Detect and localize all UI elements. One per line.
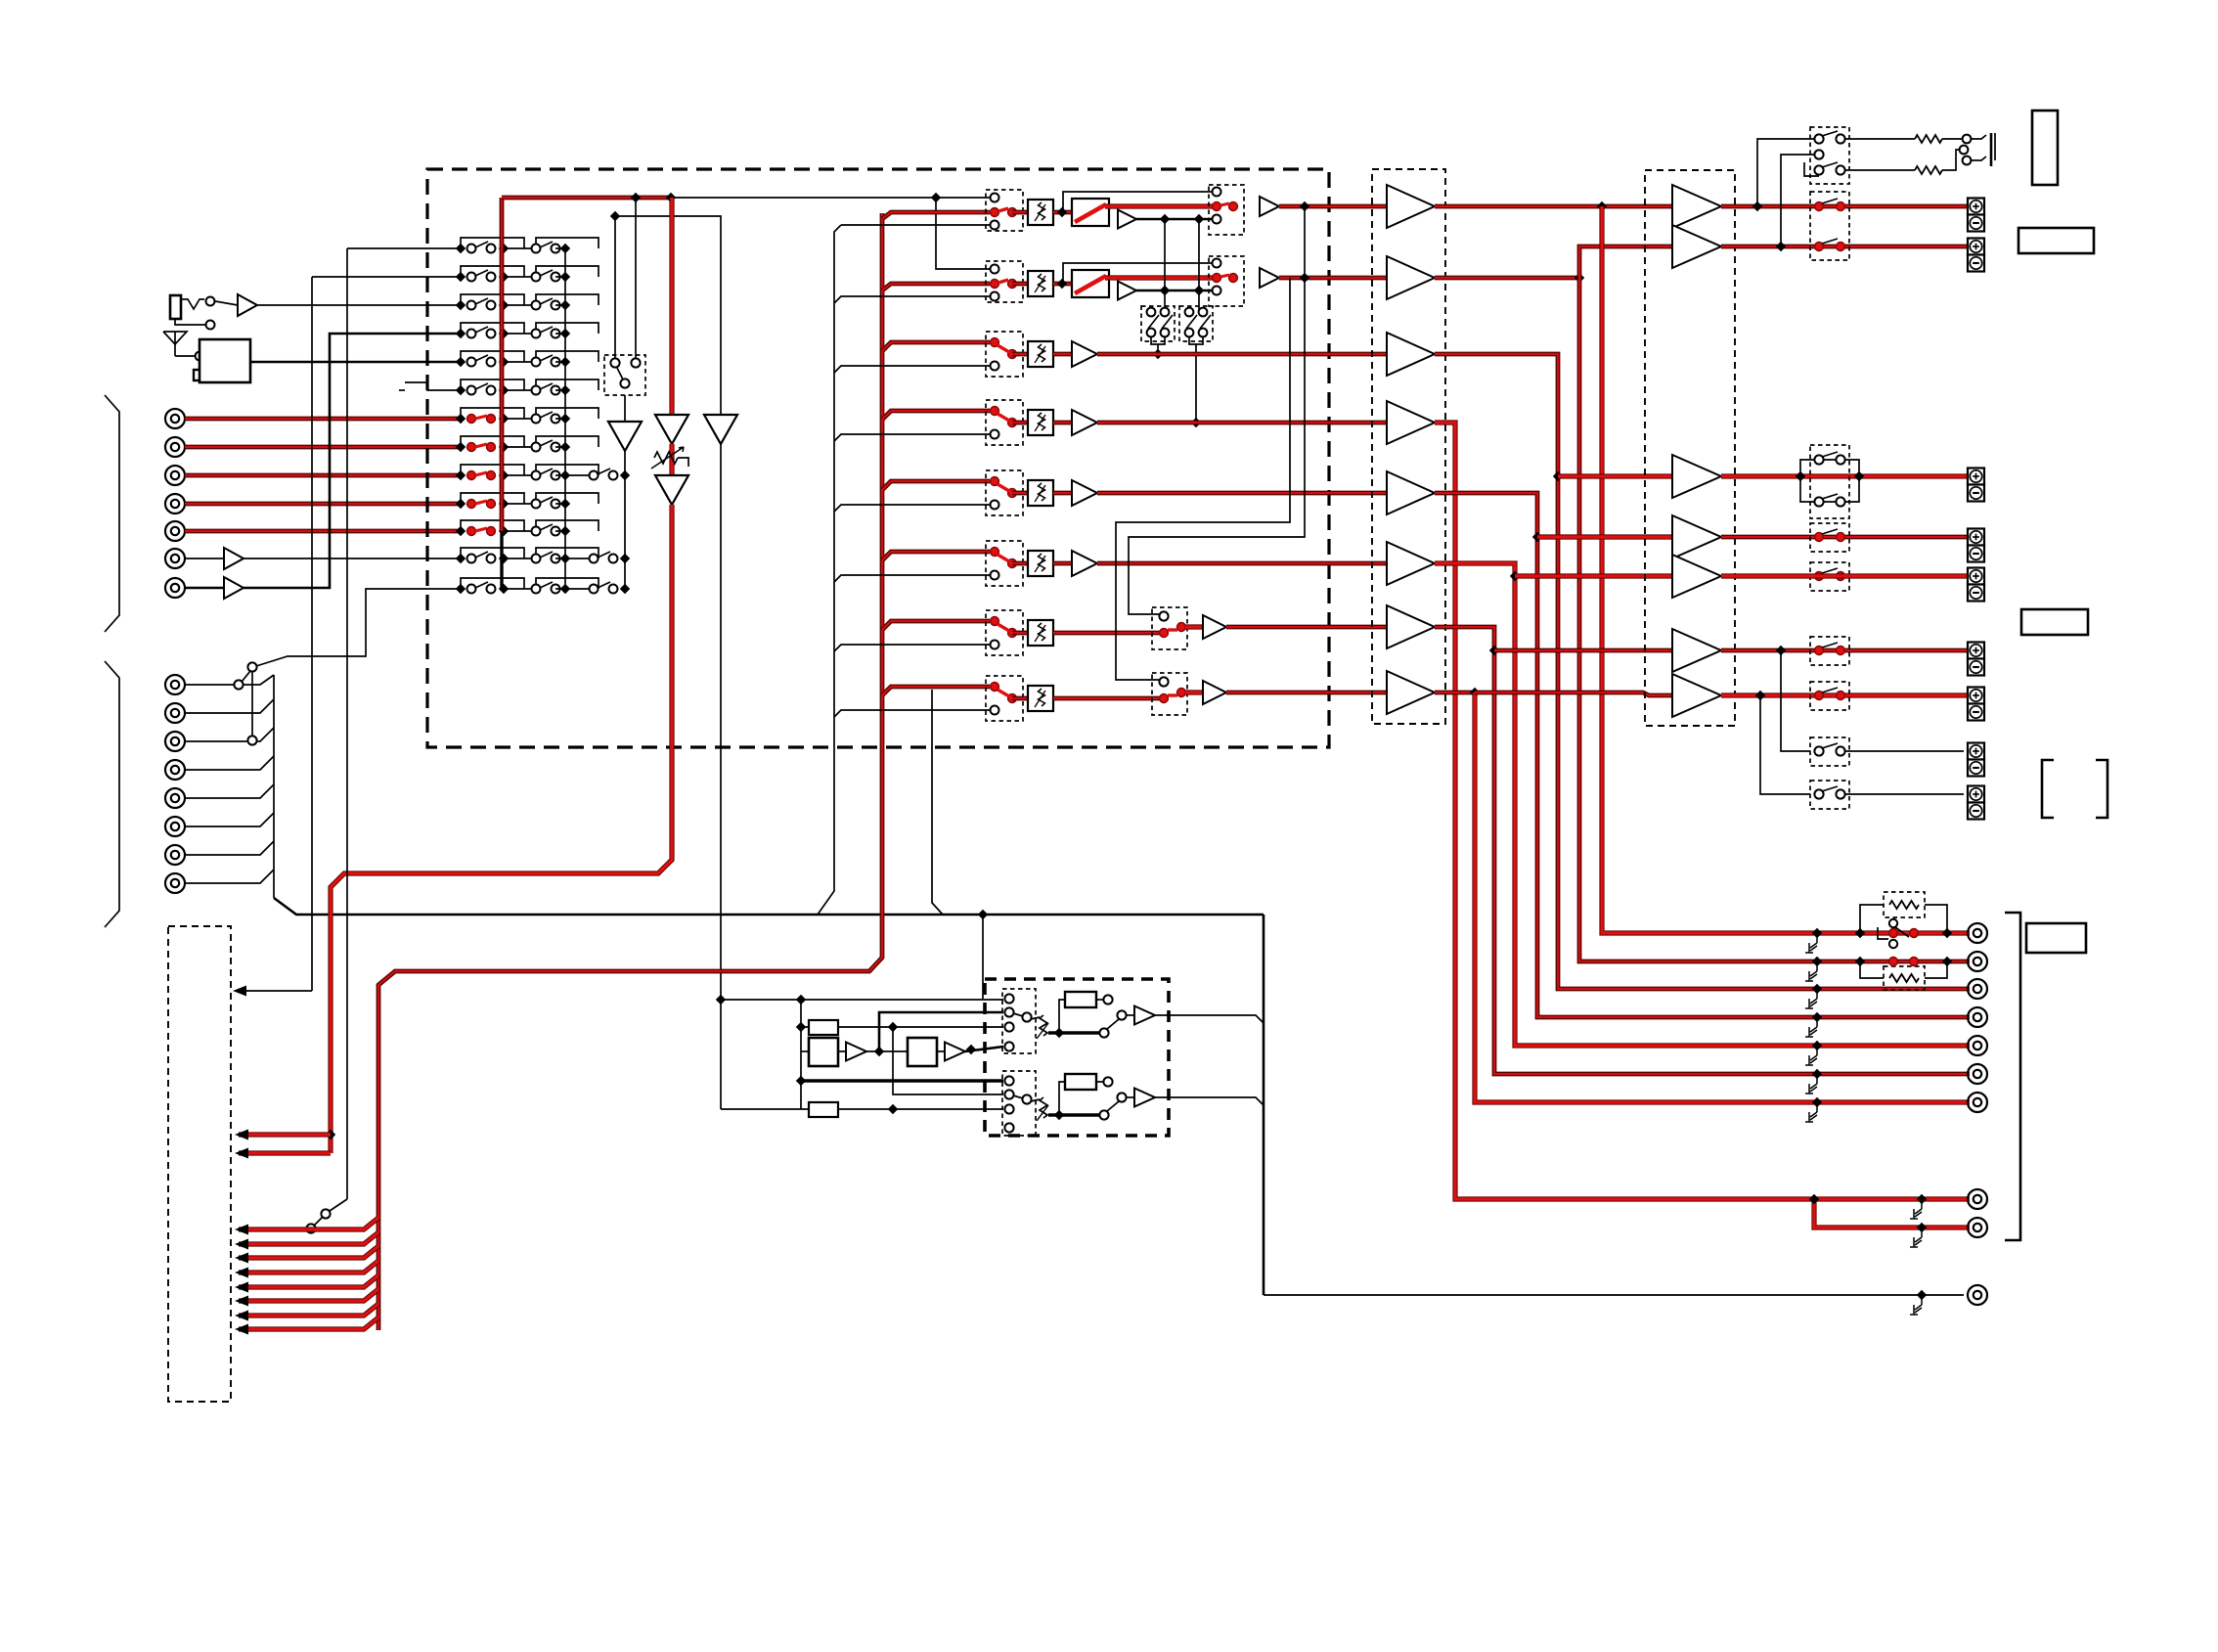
- matrix row 11 switch col1: [456, 526, 466, 536]
- matrix bus lower (black): [500, 531, 503, 589]
- rec bundle line 4: [239, 1261, 378, 1272]
- AV lower output wire: [1155, 1097, 1264, 1105]
- matrix row 5 switch col1: [456, 357, 466, 367]
- wire monitor to tape box arrows: [326, 1130, 335, 1139]
- wire S4 out: [1721, 535, 1970, 540]
- volume row 3 resistor VR3: [1012, 352, 1028, 357]
- wire U1 out to matrix row3: [257, 304, 461, 306]
- subwoofer line resistor relay (bottom): [1884, 966, 1925, 990]
- volume row 4 resistor VR4: [1012, 421, 1028, 425]
- buffer column amp 1: [1387, 185, 1435, 228]
- dashed box: input selector block: [427, 169, 1329, 747]
- vertical bus of group2 jacks: [273, 675, 275, 898]
- wire jack group2 #8 to bus: [185, 870, 274, 883]
- headphone/line jack J1 top-left: [170, 295, 181, 319]
- matrix row 4 switch col1: [456, 329, 466, 338]
- pre-out jack 3: [1968, 979, 1987, 999]
- AV switch box upper: [1002, 989, 1036, 1053]
- wire b8 to PA S7: [1475, 692, 1672, 695]
- wire selector to matrix row13: [256, 589, 461, 666]
- matrix row 10 switch col1: [456, 499, 466, 509]
- subwoofer line resistor relay (top): [1884, 892, 1925, 917]
- AV IC U-a: [809, 1038, 838, 1066]
- AV lower switch + buffer: [1099, 1110, 1108, 1119]
- buffer row 7: [1185, 624, 1203, 629]
- branch b6 to PA S5: [1515, 573, 1672, 578]
- buffer column amp 8: [1387, 671, 1435, 714]
- wire row 5 out to buffer column: [1097, 491, 1387, 496]
- buffer column amp 6: [1387, 542, 1435, 585]
- volume row 5 resistor VR5: [1012, 491, 1028, 496]
- pre-out jack 6: [1968, 1064, 1987, 1084]
- label rect pre out: [2026, 923, 2086, 953]
- AV switch box lower: [1002, 1071, 1036, 1136]
- wire red input 4 to matrix: [185, 502, 461, 507]
- terminal pairs rear B: [1968, 743, 1984, 760]
- tone bypass wire row 2: [1063, 263, 1217, 284]
- wire red input 2 to matrix: [185, 445, 461, 450]
- center bypass switches: [1800, 460, 1859, 476]
- terminal pairs rear A: [1968, 643, 1984, 659]
- wire jack7 to buffer B2: [185, 587, 224, 590]
- matrix row 1 switch col2: [504, 247, 536, 249]
- wire b8 out: [1435, 691, 1475, 695]
- terminal pairs surround: [1968, 529, 1984, 546]
- wire row 2 red out: [1105, 275, 1217, 280]
- wire SW2 right contact up to top line: [635, 198, 637, 358]
- volume row 1 resistor VR1: [1012, 210, 1028, 215]
- rec bundle line 5: [239, 1275, 378, 1287]
- wire red input 3 to matrix: [185, 473, 461, 478]
- AV mid rail: [893, 1027, 1003, 1094]
- buffer row 1a: [1118, 210, 1136, 229]
- down-triangle T3: [655, 475, 688, 505]
- wire jack group2 #2 to bus: [185, 699, 274, 713]
- wire jack group2 #6 to bus: [185, 813, 274, 826]
- RCA jack group2 #6: [165, 817, 185, 836]
- power amp 1: [1672, 185, 1721, 228]
- wire S5 out: [1721, 573, 1970, 578]
- wire S6 out: [1721, 648, 1970, 653]
- source bus branch to volume row 4: [882, 411, 990, 420]
- buffer row 3: [1053, 352, 1072, 357]
- wire matrix row2 from tape box: [312, 276, 461, 278]
- matrix record bus col2: [564, 248, 566, 589]
- matrix row 11 switch col2: [504, 530, 536, 532]
- wire red input 1 to matrix: [185, 417, 461, 422]
- relay2 row 1: [1209, 185, 1244, 235]
- buffer row 4: [1053, 421, 1072, 425]
- AV lower out: [1048, 1113, 1099, 1116]
- matrix row 9 switch col1: [456, 470, 466, 480]
- matrix row 6 switch col1: [456, 385, 466, 395]
- wire monitor B down to row4: [1195, 344, 1197, 423]
- buffer column amp 3: [1387, 333, 1435, 376]
- matrix col3 partial rows 9,12,13: [565, 474, 594, 476]
- AV bottom line with resistor R-b: [721, 1108, 809, 1110]
- wire row 1 buffer out: [1136, 218, 1217, 221]
- RCA input jack group1 #4: [165, 494, 185, 513]
- pre-out jack 4: [1968, 1007, 1987, 1027]
- volume row 1 junction: [1053, 210, 1072, 215]
- wire group2 bus to control line: [274, 898, 1264, 915]
- wire jack group2 #3 to bus: [185, 728, 274, 741]
- bracket rear B left: [2042, 760, 2054, 818]
- AM loop terminal (small square): [199, 360, 200, 370]
- matrix row 12 switch col1: [456, 554, 466, 563]
- vertical drop row1: [1602, 206, 1970, 933]
- ground bus vertical x853: [818, 225, 841, 915]
- wire row 4 out to buffer column: [1097, 421, 1387, 425]
- matrix row 13 switch col2: [504, 588, 536, 590]
- headphone resistors: [1845, 138, 1915, 140]
- matrix row 6 switch col2: [504, 389, 536, 391]
- pre-out jack 5: [1968, 1036, 1987, 1055]
- wire row 8 to tape switch: [1053, 696, 1164, 701]
- volume row 8 relay RY8: [986, 676, 1023, 721]
- volume row 8 resistor VR8: [1012, 696, 1028, 701]
- wire B2 out up to matrix row4: [244, 334, 461, 588]
- source bus branch to volume row 6: [882, 552, 990, 560]
- wire control bus vertical: [1263, 915, 1265, 1295]
- wire S1 out: [1721, 204, 1970, 209]
- wire S2 out: [1721, 245, 1970, 249]
- terminal pair center: [1968, 469, 1984, 485]
- headphone tap wires: [1757, 139, 1814, 206]
- source bus branch to volume row 5: [882, 481, 990, 490]
- wire tape return line to row8 switch box: [1116, 278, 1290, 680]
- wire row 7 to tape switch: [1053, 631, 1164, 636]
- buffer row 5: [1053, 491, 1072, 496]
- down-triangle T4: [704, 415, 737, 444]
- RCA jack group2 #4: [165, 760, 185, 780]
- volume row 7 resistor VR7: [1012, 631, 1028, 636]
- wire b4 down (subwoofer): [1435, 423, 1814, 1199]
- bracket input group 1: [105, 395, 119, 632]
- volume row 3 relay RY3: [986, 332, 1023, 377]
- source bus branch to volume row 7: [882, 621, 990, 630]
- volume row 4 relay RY4: [986, 400, 1023, 445]
- AV rail up: [879, 1012, 1003, 1051]
- tone bypass wire row 1: [1063, 192, 1217, 212]
- pre-out jack 7: [1968, 1093, 1987, 1112]
- wire b7 down: [1435, 627, 1970, 1074]
- wire b2 out jog up (R main): [1435, 276, 1579, 281]
- label rect phones: [2032, 111, 2058, 185]
- dashed box power amp block: [1645, 170, 1735, 726]
- matrix row 9 switch col2: [504, 474, 536, 476]
- matrix row 12 switch col2: [504, 558, 536, 559]
- tone box row 2: [1072, 270, 1109, 297]
- FM antenna symbol: [163, 332, 187, 344]
- wire row2 to tape box (arrow): [311, 277, 313, 991]
- dashed box buffer column: [1372, 169, 1445, 724]
- AV lower fixed resistor: [1059, 1082, 1065, 1115]
- source bus branch to volume row 3: [882, 342, 990, 351]
- AV upper switch + buffer: [1099, 1028, 1108, 1037]
- wire B1 out to matrix row12: [244, 558, 461, 559]
- buffer column amp 5: [1387, 471, 1435, 514]
- vertical drop row2: [1579, 278, 1970, 961]
- matrix row 2 switch col1: [456, 272, 466, 282]
- wire jack group2 #7 to bus: [185, 841, 274, 855]
- wire monitor A down to row3: [1157, 344, 1159, 354]
- transistor mute Q5: [1816, 1046, 1818, 1055]
- matrix maroon bus vertical: [500, 198, 505, 531]
- AV upper out: [1048, 1031, 1099, 1034]
- volume row 5 relay RY5: [986, 470, 1023, 515]
- matrix row 1 switch col1: [456, 244, 466, 253]
- wire b6 down: [1435, 563, 1970, 1046]
- transistor mute Q4: [1816, 1017, 1818, 1027]
- power amp 4: [1672, 515, 1721, 558]
- volume row 1 relay RY1: [986, 190, 1023, 231]
- RCA jack group2 #7: [165, 845, 185, 865]
- maroon source bus vertical x905: [378, 213, 882, 1330]
- buffer U1 (line in): [215, 301, 238, 305]
- wire row 6 out to buffer column: [1097, 561, 1387, 566]
- buffer B1: [224, 548, 244, 569]
- wire row 2 out: [1279, 276, 1387, 281]
- RCA jack group2 #2: [165, 703, 185, 723]
- terminal pair front R: [1968, 239, 1984, 255]
- source bus branch to volume row2: [882, 284, 990, 290]
- branch b3 to PA center: [1558, 473, 1672, 478]
- wire tuner out to matrix row5: [250, 361, 461, 364]
- RCA input jack group1 #5: [165, 521, 185, 541]
- AV input rail: [721, 999, 1003, 1001]
- wire row 2 buffer out: [1136, 290, 1217, 292]
- buffer row 2b: [1260, 268, 1279, 288]
- power amp 7: [1672, 674, 1721, 717]
- label rect surround: [2021, 609, 2088, 635]
- pre-out jack 2: [1968, 952, 1987, 971]
- branch b7 to PA S6: [1494, 648, 1672, 653]
- transistor mute Q3: [1816, 989, 1818, 999]
- pre-out jack 1: [1968, 923, 1987, 943]
- wire SW2 left contact up: [614, 216, 616, 358]
- matrix row 7 switch col1: [456, 414, 466, 424]
- bracket input group 2: [105, 661, 119, 927]
- AV upper output wire: [1155, 1015, 1264, 1023]
- AV upper fixed resistor: [1059, 1000, 1065, 1033]
- tone box row 1: [1072, 199, 1109, 226]
- wire jack group2 #1 to bus: [185, 675, 274, 685]
- dashed switch box SW2 (rec select): [604, 355, 645, 395]
- RCA input jack group1 #3: [165, 466, 185, 485]
- buffer row 6: [1053, 561, 1072, 566]
- buffer column amp 4: [1387, 401, 1435, 444]
- AV buffer a: [838, 1050, 846, 1052]
- rec bundle line 2: [239, 1232, 378, 1244]
- matrix row 3 switch col2: [504, 304, 536, 306]
- label rect speakers front: [2018, 228, 2094, 253]
- rec bundle line 7: [239, 1304, 378, 1316]
- tape switch box row 7: [1152, 607, 1187, 649]
- wire row 1 red out: [1105, 203, 1217, 208]
- relay rear A: [1810, 637, 1849, 665]
- tape switch box row 8: [1152, 673, 1187, 715]
- relay surround A: [1810, 523, 1849, 552]
- buffer column amp 7: [1387, 605, 1435, 648]
- headphone relay box: [1810, 127, 1849, 184]
- RCA input jack group1 #6: [165, 549, 185, 568]
- dashed box AV compu link: [985, 979, 1169, 1136]
- volume row 2 relay RY2: [986, 261, 1023, 302]
- AV resistor R-a: [801, 1026, 809, 1028]
- RCA input jack group1 #1: [165, 409, 185, 428]
- wire b8 drop: [1475, 692, 1970, 1102]
- transistor mute Q1: [1816, 933, 1818, 943]
- branch to AV circuit: [982, 915, 984, 999]
- matrix row 4 switch col2: [504, 333, 536, 335]
- buffer row 8: [1185, 690, 1203, 694]
- black feed lines to volume row bottom contacts: [841, 224, 995, 226]
- wire T4 down to AV circuit: [720, 444, 722, 1000]
- AV pot lower: [1040, 1097, 1047, 1118]
- source bus top corner to volume row1: [882, 212, 990, 219]
- headphone jack J-PH: [1963, 135, 1972, 144]
- matrix row 7 switch col2: [504, 418, 536, 420]
- ground symbol row6: [405, 382, 461, 390]
- wire S7 out: [1721, 692, 1970, 697]
- wire matrix row1 from record bus: [347, 247, 461, 249]
- buffer column amp 2: [1387, 256, 1435, 299]
- AV IC U-b: [908, 1038, 937, 1066]
- buffer row 1b: [1260, 197, 1279, 216]
- monitor switch box A: [1141, 306, 1175, 341]
- matrix col3 bus: [624, 475, 626, 589]
- wire row 8 out: [1226, 691, 1387, 695]
- power amp 2: [1672, 225, 1721, 268]
- matrix row 2 switch col2: [504, 276, 536, 278]
- wire T3 out down (bright red): [331, 505, 672, 1153]
- transistor mute Q2: [1816, 961, 1818, 971]
- volume row 6 relay RY6: [986, 541, 1023, 586]
- RCA jack group2 #3: [165, 732, 185, 751]
- rec bundle line 8: [239, 1317, 378, 1329]
- dashed box tape deck left: [168, 926, 231, 1402]
- speaker B taps: [1781, 650, 1810, 751]
- wire row 3 out to buffer column: [1097, 352, 1387, 357]
- tape feed vertical x953: [932, 690, 943, 915]
- AV lower line bold: [801, 1079, 1003, 1082]
- tuner box U2: [200, 339, 250, 382]
- matrix row 5 switch col2: [504, 361, 536, 363]
- terminal pair front L: [1968, 199, 1984, 215]
- record select switch at bundle: [346, 248, 348, 1199]
- transistor mute Q7: [1816, 1102, 1818, 1112]
- branch b5 to PA S4: [1537, 534, 1672, 539]
- source bus branch to volume row 8: [882, 687, 990, 695]
- wire b3 down to center amp: [1435, 354, 1970, 989]
- monitor switch box B: [1179, 306, 1213, 341]
- selector switch SW-A (aux) circles: [234, 680, 243, 689]
- matrix row 3 switch col1: [456, 300, 466, 310]
- relay2 row 2: [1209, 256, 1244, 306]
- RCA jack group2 #5: [165, 788, 185, 808]
- AV pot upper: [1040, 1015, 1047, 1036]
- buffer row 2a: [1118, 282, 1136, 300]
- power amp 5: [1672, 555, 1721, 598]
- volume row 7 relay RY7: [986, 610, 1023, 655]
- wire S3 (center) out: [1721, 473, 1970, 478]
- matrix row 8 switch col2: [504, 446, 536, 448]
- RCA jack group2 #8: [165, 873, 185, 893]
- matrix row 8 switch col1: [456, 442, 466, 452]
- rec bundle line 6: [239, 1289, 378, 1301]
- matrix row 13 switch col1: [456, 584, 466, 594]
- volume row 2 junction: [1053, 282, 1072, 287]
- wire red input 5 to matrix: [185, 529, 461, 534]
- rec bundle line 1: [239, 1218, 378, 1229]
- RCA jack group2 #1: [165, 675, 185, 694]
- bracket rear B right: [2096, 760, 2107, 818]
- power amp 3: [1672, 455, 1721, 498]
- down-triangle T2 (monitor): [669, 198, 674, 415]
- vertical taps to monitor boxes: [1164, 219, 1166, 311]
- subwoofer pre-out pair: [1814, 1196, 1970, 1201]
- wire rec line y=221 to down-triangle T4: [615, 216, 721, 415]
- RCA input jack group1 #2: [165, 437, 185, 457]
- wire b1 out (L main): [1435, 204, 1672, 209]
- relay box speakers A: [1810, 192, 1849, 260]
- subwoofer jacks: [1968, 1189, 1987, 1209]
- wire row 1 out: [1279, 204, 1387, 209]
- wire x957 top tap down to row2 relay: [936, 198, 995, 269]
- rec bundle line 3: [239, 1246, 378, 1258]
- wire jack group2 #4 to bus: [185, 756, 274, 770]
- buffer B2: [224, 577, 244, 599]
- wire b5 down: [1435, 493, 1970, 1017]
- wire row 7 out: [1226, 625, 1387, 630]
- volume row 2 resistor VR2: [1012, 282, 1028, 287]
- wire tape return line to row7 switch box: [1129, 206, 1305, 614]
- pre-out bracket: [2005, 913, 2020, 1240]
- control jack: [1264, 1294, 1964, 1296]
- AV buffer b: [937, 1050, 945, 1052]
- RCA input jack group1 #7: [165, 578, 185, 598]
- wire jack group2 #5 to bus: [185, 784, 274, 798]
- pot resistor R-mon: [669, 444, 674, 475]
- wire top monitor line y=202: [502, 196, 671, 201]
- down-triangle T1: [624, 395, 626, 422]
- wire jack6 to buffer B1: [185, 558, 224, 559]
- relay rear B: [1810, 737, 1849, 766]
- matrix row 10 switch col2: [504, 503, 536, 505]
- transistor mute Q6: [1816, 1074, 1818, 1084]
- volume row 6 resistor VR6: [1012, 561, 1028, 566]
- power amp 6: [1672, 629, 1721, 672]
